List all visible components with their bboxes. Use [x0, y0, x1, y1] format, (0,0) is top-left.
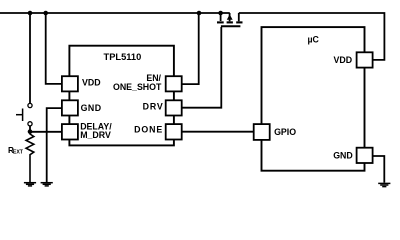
svg-text:DRV: DRV [143, 101, 164, 111]
svg-text:EXT: EXT [13, 150, 24, 156]
svg-text:ONE_SHOT: ONE_SHOT [113, 82, 162, 92]
svg-text:VDD: VDD [334, 55, 353, 65]
svg-text:VDD: VDD [82, 78, 101, 88]
svg-text:GND: GND [333, 151, 353, 161]
svg-text:DONE: DONE [134, 125, 163, 135]
svg-text:TPL5110: TPL5110 [104, 52, 142, 62]
svg-text:GPIO: GPIO [274, 127, 296, 137]
svg-text:µC: µC [307, 35, 319, 45]
svg-text:M_DRV: M_DRV [80, 130, 111, 140]
svg-text:GND: GND [81, 103, 102, 113]
